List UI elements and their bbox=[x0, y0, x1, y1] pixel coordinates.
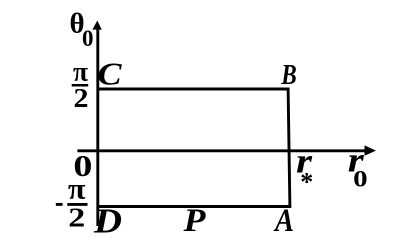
theta_0 axis arrowhead bbox=[92, 21, 101, 30]
svg-text:π: π bbox=[68, 173, 86, 206]
svg-text:π: π bbox=[73, 57, 88, 87]
svg-text:B: B bbox=[280, 59, 296, 91]
svg-text:0: 0 bbox=[82, 26, 94, 51]
svg-text:P: P bbox=[182, 203, 206, 239]
svg-text:2: 2 bbox=[68, 202, 85, 232]
svg-text:D: D bbox=[93, 202, 122, 241]
rectangle C B A D bbox=[98, 89, 290, 207]
svg-text:C: C bbox=[98, 55, 123, 91]
svg-text:A: A bbox=[273, 203, 294, 239]
svg-text:*: * bbox=[300, 168, 313, 197]
r_0 axis (horizontal) bbox=[77, 149, 367, 152]
tick label -pi/2 bbox=[56, 203, 63, 206]
r_0 axis arrowhead bbox=[365, 145, 377, 155]
theta_0 axis (vertical) bbox=[96, 26, 99, 226]
svg-text:0: 0 bbox=[353, 167, 368, 193]
svg-text:2: 2 bbox=[74, 83, 89, 113]
